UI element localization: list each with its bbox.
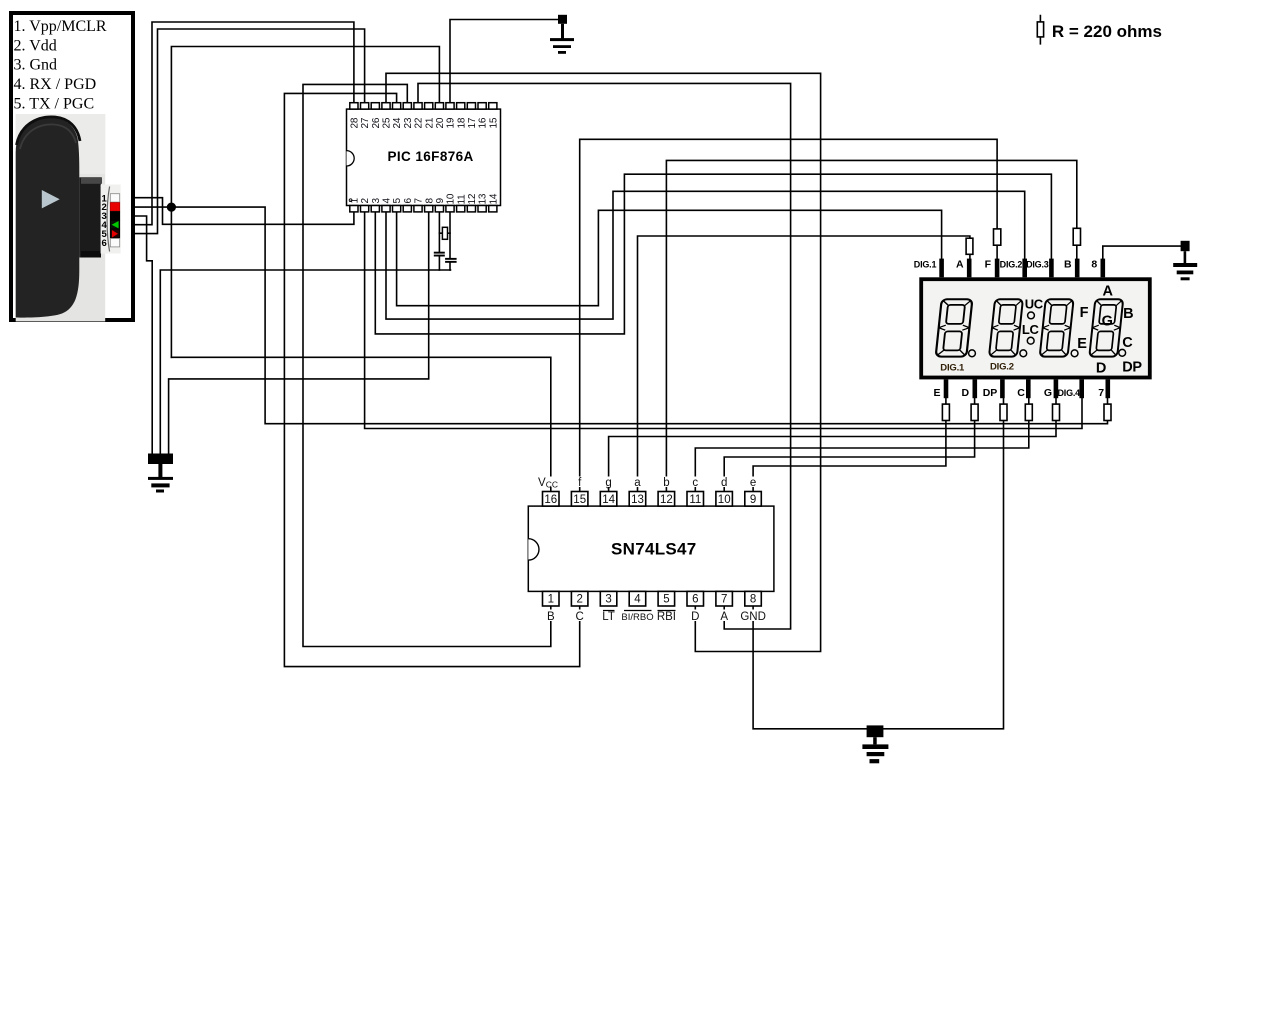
svg-text:23: 23 [403,117,414,128]
svg-text:DIG.2: DIG.2 [990,362,1014,373]
svg-text:12: 12 [660,494,673,506]
svg-text:C: C [576,611,584,623]
svg-text:LC: LC [1022,322,1040,337]
svg-text:VCC: VCC [538,477,558,490]
svg-text:F: F [985,258,992,270]
svg-text:21: 21 [424,117,435,128]
svg-text:11: 11 [456,194,467,205]
svg-text:18: 18 [456,117,467,128]
svg-text:C: C [1017,387,1025,399]
svg-text:10: 10 [446,193,457,204]
svg-text:8: 8 [1091,258,1097,270]
svg-text:A: A [720,611,728,623]
svg-text:2: 2 [360,198,371,204]
svg-text:14: 14 [488,193,499,204]
svg-text:26: 26 [371,117,382,128]
svg-text:27: 27 [360,117,371,128]
svg-text:PIC 16F876A: PIC 16F876A [388,149,474,164]
svg-text:19: 19 [446,117,457,128]
svg-text:B: B [547,611,555,623]
svg-text:15: 15 [573,494,586,506]
svg-text:D: D [1096,361,1106,377]
svg-text:5: 5 [392,198,403,204]
svg-text:B: B [1123,306,1133,322]
svg-text:28: 28 [350,117,361,128]
svg-text:1. Vpp/MCLR: 1. Vpp/MCLR [14,18,107,35]
svg-text:4: 4 [382,198,393,204]
svg-text:7: 7 [414,198,425,204]
svg-text:2. Vdd: 2. Vdd [14,37,57,54]
svg-text:3. Gnd: 3. Gnd [14,57,58,74]
svg-text:12: 12 [467,193,478,204]
svg-text:4: 4 [634,594,641,606]
svg-text:4. RX / PGD: 4. RX / PGD [14,76,97,93]
svg-text:E: E [1077,336,1087,352]
svg-text:9: 9 [435,198,446,204]
svg-text:3: 3 [371,198,382,204]
svg-text:A: A [1103,284,1114,300]
svg-text:a: a [634,477,641,489]
svg-text:15: 15 [488,117,499,128]
svg-text:20: 20 [435,117,446,128]
svg-text:9: 9 [750,494,756,506]
svg-text:c: c [692,477,698,489]
svg-text:3: 3 [605,594,611,606]
svg-text:DIG.4: DIG.4 [1057,388,1080,398]
svg-text:GND: GND [740,611,766,623]
svg-text:7: 7 [721,594,727,606]
svg-text:D: D [962,387,970,399]
svg-text:8: 8 [750,594,756,606]
svg-text:6: 6 [692,594,698,606]
svg-text:6: 6 [102,238,107,249]
svg-text:DIG.2: DIG.2 [1000,259,1023,269]
svg-text:SN74LS47: SN74LS47 [611,540,697,559]
svg-text:DIG.1: DIG.1 [940,363,965,374]
svg-text:16: 16 [544,494,557,506]
svg-text:G: G [1102,314,1113,330]
svg-text:R = 220 ohms: R = 220 ohms [1052,22,1162,41]
svg-text:DP: DP [983,387,998,399]
svg-text:16: 16 [478,117,489,128]
svg-text:E: E [933,387,940,399]
svg-text:F: F [1080,305,1089,321]
svg-text:25: 25 [382,117,393,128]
svg-text:g: g [605,477,611,489]
svg-text:10: 10 [718,494,731,506]
svg-text:13: 13 [631,494,644,506]
svg-text:24: 24 [392,117,403,128]
svg-text:b: b [663,477,669,489]
svg-text:G: G [1044,387,1052,399]
svg-text:7: 7 [1098,387,1104,399]
svg-text:5. TX / PGC: 5. TX / PGC [14,96,95,113]
svg-text:d: d [721,477,727,489]
svg-text:LT: LT [602,611,615,623]
svg-text:A: A [956,258,964,270]
svg-text:2: 2 [576,594,582,606]
svg-text:17: 17 [467,117,478,128]
svg-text:13: 13 [478,193,489,204]
svg-text:UC: UC [1025,297,1044,312]
svg-text:6: 6 [403,198,414,204]
svg-text:5: 5 [663,594,669,606]
svg-text:11: 11 [689,494,701,506]
svg-text:e: e [750,477,756,489]
svg-text:8: 8 [424,198,435,204]
svg-text:1: 1 [548,594,554,606]
svg-text:22: 22 [414,117,425,128]
svg-text:14: 14 [602,494,615,506]
svg-text:DP: DP [1122,360,1142,376]
svg-text:RBI: RBI [657,611,676,623]
svg-text:B: B [1064,258,1072,270]
svg-text:BI/RBO: BI/RBO [621,612,653,623]
svg-text:1: 1 [350,198,361,204]
svg-text:DIG.3: DIG.3 [1026,259,1049,269]
svg-text:D: D [691,611,699,623]
svg-text:C: C [1122,335,1133,351]
svg-text:DIG.1: DIG.1 [914,259,937,269]
